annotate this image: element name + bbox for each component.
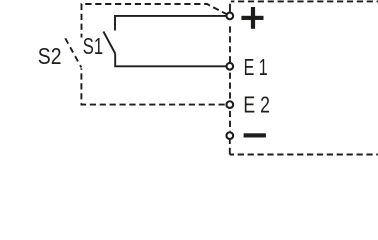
- wire dashed: stub below minus terminal: [229, 140, 231, 155]
- wire dashed: terminal column + to E1: [229, 26, 231, 62]
- wire solid stub above + terminal: [229, 4, 231, 12]
- label plus symbol: [241, 7, 263, 29]
- svg-text:S2: S2: [38, 43, 62, 69]
- wire dashed: top edge going right: [231, 0, 378, 2]
- wire dashed: terminal column E2 to minus: [229, 111, 231, 131]
- wire solid: top wire from + terminal to S1 top contact: [115, 16, 226, 31]
- wire dashed: bottom edge going right: [230, 154, 378, 156]
- terminal E1 (circle): [226, 63, 233, 70]
- terminal E2 (circle): [226, 101, 233, 108]
- label minus symbol: [244, 133, 266, 137]
- wire solid: S1 pivot down and right to E1 terminal: [115, 54, 225, 67]
- switch S1 blade (solid): [103, 32, 115, 54]
- wire dashed loop from + terminal over S1 box to S2 top contact: [82, 4, 227, 38]
- svg-text:E 2: E 2: [243, 91, 270, 117]
- wire dashed from S2 pivot down and right to terminal E2: [81, 68, 225, 104]
- switch S2 blade (dashed): [65, 38, 81, 67]
- svg-text:E 1: E 1: [244, 54, 268, 80]
- svg-text:S1: S1: [83, 33, 103, 59]
- terminal minus (circle): [226, 132, 233, 139]
- wire dashed: terminal column E1 to E2: [229, 73, 231, 101]
- terminal + (circle): [226, 13, 233, 20]
